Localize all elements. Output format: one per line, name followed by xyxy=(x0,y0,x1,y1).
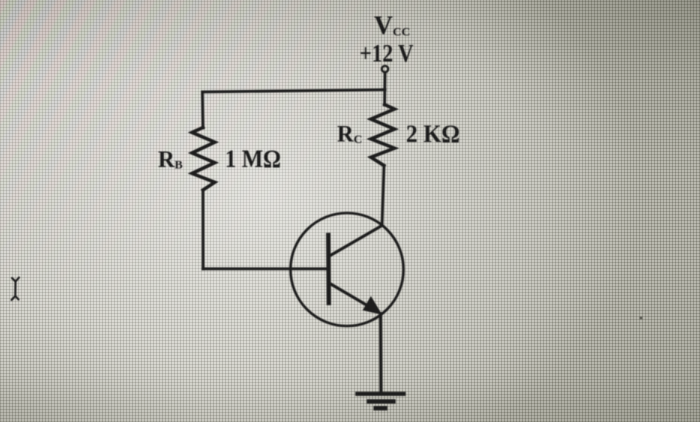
ground bar 1 xyxy=(357,392,403,396)
ground bar 3 xyxy=(376,406,386,410)
wire emitter vertical xyxy=(379,314,383,394)
wire left vertical upper xyxy=(201,92,204,128)
transistor Q1 base bar xyxy=(326,235,331,303)
svg-text:1 MΩ: 1 MΩ xyxy=(225,146,281,173)
wire collector vertical xyxy=(382,166,384,226)
resistor RC xyxy=(371,105,395,166)
svg-text:VCC: VCC xyxy=(374,11,410,40)
svg-text:2 KΩ: 2 KΩ xyxy=(406,121,460,148)
wire top horizontal xyxy=(202,90,385,92)
wire Vcc vertical xyxy=(383,73,386,106)
wire left vertical lower xyxy=(202,190,205,269)
cursor I-beam xyxy=(12,278,20,301)
transistor Q1 body circle xyxy=(291,213,404,326)
ground bar 2 xyxy=(369,399,394,403)
terminal node Vcc xyxy=(382,66,388,72)
resistor RB xyxy=(192,128,215,191)
svg-text:+12 V: +12 V xyxy=(360,41,414,68)
transistor Q1 emitter stroke xyxy=(329,283,376,310)
transistor Q1 collector stroke xyxy=(329,226,383,257)
transistor Q1 emitter arrowhead xyxy=(364,298,381,314)
svg-text:RC: RC xyxy=(337,122,362,147)
wire base horizontal xyxy=(203,267,329,270)
speck xyxy=(640,317,643,320)
svg-text:RB: RB xyxy=(158,147,183,172)
